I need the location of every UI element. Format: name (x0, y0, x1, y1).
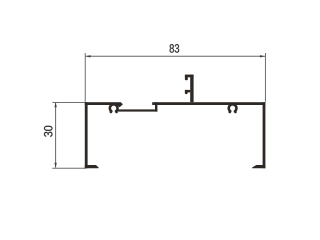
aluminum profile cross-section (85, 75, 266, 169)
dimension 83: left extension line (84, 53, 86, 102)
glazing bead leg: cap descender (185, 75, 188, 81)
dimension 30: dimension line (55, 102, 57, 167)
right wall (263, 102, 266, 168)
dimension 30: top arrowhead (54, 102, 56, 107)
left wall (85, 102, 88, 168)
right bottom foot (252, 165, 265, 168)
dimension 83: right arrowhead (260, 55, 265, 57)
dimension 83: label text (170, 44, 180, 53)
glazing bead leg: mid hook stub (185, 90, 190, 93)
dimension 30: bottom arrowhead (54, 163, 56, 168)
right gasket hook (C ring) (229, 104, 237, 111)
dimension 30: bottom extension line (52, 167, 86, 169)
step riser (155, 102, 157, 111)
dimension 83: dimension line (85, 55, 265, 57)
lower web (118, 109, 158, 111)
dimension 83: left arrowhead (86, 55, 91, 57)
top-right flange (upper line) (152, 102, 265, 105)
glazing bead leg: mid hook tip (185, 90, 188, 94)
glazing bead leg: top cap (185, 75, 194, 78)
top-left flange (85, 102, 121, 105)
dimension 30: top extension line (52, 102, 86, 104)
dimension 83: right extension line (264, 53, 266, 102)
left gasket hook (C ring) (110, 104, 118, 111)
dimension 30: label text (rotated) (44, 126, 53, 137)
glazing bead leg: vertical bar (190, 75, 193, 103)
left bottom foot (85, 165, 99, 168)
flange end barb (117, 102, 123, 107)
